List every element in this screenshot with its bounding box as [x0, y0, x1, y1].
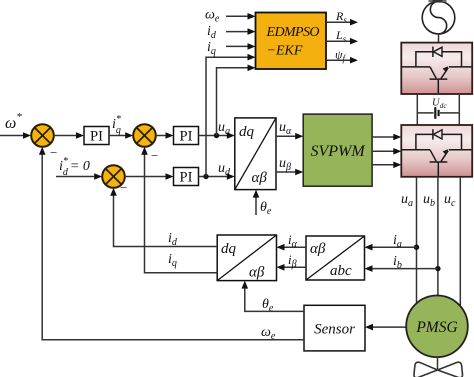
wire i_β	[277, 264, 307, 271]
block EDMPSO-EKF estimator	[256, 13, 327, 70]
wire SVPWM to inverter gate 1	[372, 134, 401, 141]
node u_d junction dot	[203, 174, 208, 179]
wire SVPWM to inverter gate 2	[372, 148, 401, 155]
wire phase a	[416, 177, 418, 303]
summing junction S1 (speed)	[31, 124, 54, 147]
block inverter (IGBT cell)	[401, 125, 472, 177]
svg-text:EDMPSO: EDMPSO	[266, 25, 320, 40]
wire ω* input arrow	[0, 132, 31, 139]
wire PI1 to S2	[109, 132, 133, 139]
AC source symbol (grid)	[422, 0, 455, 34]
svg-text:αβ: αβ	[252, 170, 268, 186]
wire DC link left	[416, 94, 418, 125]
wire i_d into EDMPSO-EKF	[226, 28, 256, 35]
machine PMSG	[406, 296, 468, 358]
svg-text:−: −	[151, 148, 158, 163]
wire ω_e from Sensor to S1	[39, 147, 304, 340]
wire ω_e into EDMPSO-EKF	[226, 13, 256, 20]
block Sensor	[304, 305, 365, 351]
wire u_α to SVPWM	[276, 133, 303, 140]
wire PMSG to Sensor	[365, 324, 406, 331]
wind turbine blades	[414, 362, 463, 377]
block PI3	[174, 168, 199, 186]
svg-text:SVPWM: SVPWM	[310, 143, 366, 160]
wire S2 to PI2	[156, 132, 174, 139]
summing junction S2 (q current)	[133, 124, 156, 147]
wire i_q into EDMPSO-EKF	[226, 43, 256, 50]
svg-text:PMSG: PMSG	[415, 319, 457, 336]
summing junction S3 (d current)	[102, 165, 125, 188]
wire phase b	[437, 177, 439, 296]
svg-text:−: −	[50, 145, 57, 160]
svg-text:PI: PI	[90, 129, 103, 145]
block PI2	[174, 127, 199, 145]
svg-text:αβ: αβ	[310, 241, 326, 257]
wire i_d feedback to S3	[110, 188, 217, 247]
wire i_q feedback to S2	[141, 147, 217, 273]
wire i_b to abc block	[365, 265, 438, 272]
wire R_s output arrow	[326, 19, 358, 26]
svg-text:−EKF: −EKF	[267, 44, 303, 59]
wire DC link right	[458, 94, 460, 125]
wire θ_e into dq/αβ	[253, 190, 260, 215]
block dq/αβ Park transform (feedback)	[217, 235, 276, 281]
block PI1	[84, 127, 109, 145]
svg-text:αβ: αβ	[249, 265, 265, 281]
wire u_β to SVPWM	[276, 169, 303, 176]
wire SVPWM to inverter gate 3	[372, 162, 401, 169]
block SVPWM	[303, 114, 372, 186]
svg-text:PI: PI	[180, 170, 193, 186]
capacitor U_dc	[417, 107, 459, 119]
wire S3 to PI3	[125, 173, 174, 180]
wire L_s output arrow	[326, 38, 358, 45]
wire ψ_f output arrow	[326, 57, 358, 64]
wire i_d* input arrow	[56, 173, 102, 180]
wire i_a to abc block	[365, 244, 417, 251]
wire u_q feedback up to EDMPSO-EKF input 5	[217, 65, 256, 136]
wire PMSG shaft	[437, 357, 439, 370]
wire PI3 to dq block (u_d)	[199, 173, 235, 180]
wire phase c	[459, 177, 461, 307]
wire θ_e from Sensor to dq/αβ feedback block	[242, 281, 305, 312]
wire AC source to rectifier	[438, 34, 440, 43]
block αβ/abc Clarke transform	[306, 236, 365, 280]
wire PI2 to dq block (u_q)	[199, 132, 235, 139]
wire i_α	[277, 244, 307, 251]
svg-text:dq: dq	[239, 124, 255, 140]
wire u_d feedback up to EDMPSO-EKF input 4	[206, 54, 256, 177]
svg-text:dq: dq	[221, 241, 237, 257]
node i_b tap	[435, 266, 440, 271]
block rectifier (IGBT cell)	[401, 43, 472, 94]
svg-text:−: −	[120, 180, 127, 195]
svg-text:PI: PI	[180, 129, 193, 145]
svg-text:abc: abc	[330, 263, 352, 279]
node u_q junction dot	[214, 133, 219, 138]
wire S1 to PI1	[54, 132, 84, 139]
block dq/αβ inverse Park transform	[235, 118, 276, 190]
node i_a tap	[414, 245, 419, 250]
svg-text:Sensor: Sensor	[314, 322, 355, 338]
